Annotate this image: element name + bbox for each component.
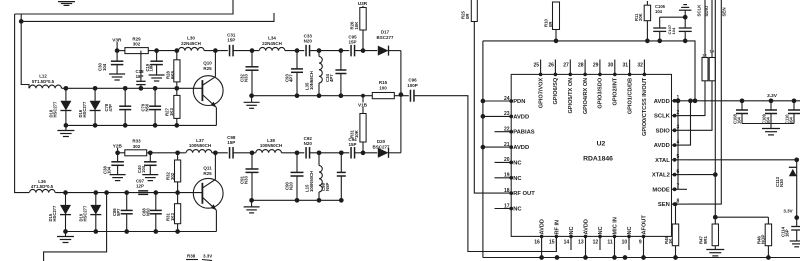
pin 15 stub [555, 235, 559, 250]
node junction C109 rail [769, 98, 774, 103]
node junction D15 bottom [63, 229, 68, 234]
pin 8 label [658, 202, 670, 208]
ground on lower rail [244, 200, 260, 213]
wire C108-C110 bottom link [742, 123, 794, 125]
svg-text:104: 104 [655, 9, 663, 14]
svg-text:104: 104 [736, 116, 741, 124]
node junction C79 top [153, 86, 158, 91]
pin 11 stub [613, 235, 617, 250]
capacitor C92 [306, 147, 310, 159]
svg-text:HSC277: HSC277 [53, 101, 58, 117]
svg-text:10K: 10K [354, 129, 359, 138]
node junction D16 [93, 86, 98, 91]
svg-text:HSC277: HSC277 [82, 101, 87, 117]
svg-text:11: 11 [607, 240, 613, 246]
wire Q11 collector [203, 153, 216, 188]
pin 32 label [642, 77, 648, 136]
svg-text:27: 27 [563, 63, 569, 69]
pin 7 number [677, 184, 680, 190]
svg-text:5T1.5D*0.5: 5T1.5D*0.5 [32, 79, 55, 84]
pin 5 number [677, 154, 680, 160]
diode D20 [378, 148, 401, 158]
capacitor C30 [111, 51, 124, 74]
svg-text:N33: N33 [244, 74, 249, 82]
ground above C106/C107 [679, 5, 692, 20]
node junction gnd rail left [249, 93, 254, 98]
capacitor C94 label [348, 137, 357, 147]
node junction C78 top [123, 86, 128, 91]
capacitor C40 label [137, 165, 146, 173]
wire SDIO riser [687, 81, 712, 131]
svg-text:PABIAS: PABIAS [513, 130, 535, 136]
svg-text:24: 24 [504, 96, 510, 102]
capacitor C90 label [285, 182, 294, 190]
node junction D19 bottom [93, 229, 98, 234]
node junction tap [104, 190, 109, 195]
capacitor C98 [230, 147, 234, 159]
pin 11 label [613, 217, 619, 234]
pin 30 label [613, 77, 619, 105]
wire AVDD top rail [483, 41, 695, 101]
pin 3 label [656, 128, 671, 134]
wire pin11 link [612, 250, 617, 260]
node junction L35 bottom [317, 93, 322, 98]
svg-text:4P7: 4P7 [289, 74, 294, 82]
wire bottom AVDD bus [483, 257, 800, 259]
svg-text:SEN: SEN [722, 7, 727, 16]
resistor R13 pullup [709, 0, 715, 81]
svg-text:XTAL2: XTAL2 [652, 173, 670, 179]
wire C92 to C94 [310, 152, 350, 154]
text 3.3V bottom label [783, 209, 792, 214]
inductor L34 label [262, 36, 282, 46]
capacitor C107 [679, 17, 692, 41]
svg-text:3.3V: 3.3V [767, 93, 778, 99]
svg-text:D17: D17 [381, 30, 390, 35]
pin 17 number [504, 203, 510, 209]
svg-text:12: 12 [593, 240, 599, 246]
pin 24 number [504, 96, 510, 102]
resistor R27 label [165, 108, 174, 116]
node junction C40 top [148, 150, 153, 155]
svg-text:SEN: SEN [658, 202, 670, 208]
svg-text:SDIO: SDIO [656, 128, 671, 134]
capacitor C114 [791, 218, 800, 241]
node junction C110 rail [792, 98, 797, 103]
node junction R27 bottom [174, 123, 179, 128]
capacitor C34 label [325, 74, 334, 82]
pin 9 label [642, 215, 648, 235]
pin 14 number [564, 240, 570, 246]
pin 8 SEN stub [672, 202, 688, 206]
pin 15 number [549, 240, 555, 246]
pin 20 NC stub [495, 161, 512, 163]
pin 17 label [513, 207, 522, 213]
svg-text:L12: L12 [39, 74, 47, 79]
text R38 3.3V (cut off) [186, 254, 212, 261]
transistor Q11 [193, 178, 223, 208]
pin 10 number [622, 240, 628, 246]
pin 23 label [513, 114, 529, 120]
capacitor C92 label [304, 136, 313, 146]
pin 29 number [593, 63, 599, 69]
capacitor C40 [144, 153, 157, 175]
svg-text:3.3V: 3.3V [203, 254, 212, 259]
capacitor C110 label [785, 114, 794, 124]
capacitor C33 [306, 45, 310, 57]
wire left vertical to L12 row [21, 21, 29, 88]
pin 13 label [584, 219, 590, 234]
wire pin16 link [539, 250, 544, 260]
svg-text:HSC277: HSC277 [52, 205, 57, 221]
pin 21 edge dot [509, 145, 513, 149]
node junction C107 rail [683, 39, 688, 44]
pin 22 label [513, 130, 535, 136]
svg-text:22: 22 [504, 127, 510, 133]
pin 12 stub [598, 235, 602, 250]
svg-text:104: 104 [107, 166, 112, 174]
wire ground rail lower [252, 199, 342, 201]
svg-text:RDA1846: RDA1846 [583, 156, 613, 163]
node junction C90 bottom [295, 198, 300, 203]
capacitor C109 label [762, 113, 771, 124]
wire L30 to C31 [204, 50, 228, 52]
svg-text:L34: L34 [268, 36, 276, 41]
inductor L30 [179, 47, 205, 50]
pin 16 stub [540, 235, 544, 250]
resistor R48 label [664, 236, 673, 244]
svg-text:16P: 16P [785, 229, 790, 237]
pin 18 RF OUT stub [495, 192, 512, 194]
capacitor C107 label [667, 24, 676, 34]
node junction lower gnd rail [249, 198, 254, 203]
inductor L36 [30, 189, 56, 192]
svg-text:NC: NC [598, 226, 604, 234]
svg-text:104: 104 [141, 165, 146, 173]
pin 18 edge dot [509, 191, 513, 195]
pin 25 stub [539, 60, 543, 77]
diode D19 label [79, 205, 88, 221]
svg-text:100P: 100P [407, 83, 418, 88]
svg-text:BSC277: BSC277 [376, 35, 394, 40]
wire pin9 link [641, 250, 646, 260]
node junction C90 top [295, 150, 300, 155]
svg-text:HSC277: HSC277 [83, 205, 88, 221]
svg-text:C96: C96 [408, 78, 417, 83]
inductor L30 label [181, 36, 201, 46]
pin 28 stub [583, 60, 587, 77]
svg-text:XTAL: XTAL [655, 158, 670, 164]
pin 31 label [627, 78, 633, 114]
wire C106-C107 top link [660, 16, 686, 18]
capacitor C38 label [103, 166, 112, 174]
diode D16 label [78, 101, 87, 117]
wire XTAL2 net down to R47 [714, 175, 716, 218]
pin 20 edge dot [509, 161, 513, 165]
pin 6 label [652, 173, 670, 179]
node junction C79 bottom [153, 123, 158, 128]
resistor R28 [174, 51, 180, 89]
svg-text:14: 14 [564, 240, 570, 246]
svg-text:18: 18 [504, 188, 510, 194]
inductor L15 [319, 153, 322, 201]
pin 27 label [568, 78, 574, 114]
svg-text:302: 302 [133, 42, 141, 47]
pin 7 label [652, 187, 670, 193]
capacitor C114 label [781, 226, 790, 237]
wire C98 to L38 [233, 152, 255, 154]
ground on upper rail [244, 96, 260, 109]
resistor R47 [712, 217, 718, 249]
capacitor C33 label [304, 34, 313, 44]
pin 11 number [607, 240, 613, 246]
capacitor C97 [138, 191, 148, 195]
pin 19 number [504, 173, 510, 179]
svg-text:0R: 0R [465, 13, 470, 19]
ground below C114 [790, 241, 800, 247]
wire C31 to L34 [233, 50, 259, 52]
pin 8 number [677, 199, 680, 205]
wire Q10 emitter [203, 95, 217, 125]
capacitor C32 [246, 51, 259, 96]
wire pin1 AVDD to rail [687, 98, 697, 103]
node junction R31/D20 [361, 150, 366, 155]
node junction C34 top [339, 48, 344, 53]
capacitor C99 [337, 153, 346, 201]
resistor R15 [372, 93, 394, 99]
node junction top-left [19, 19, 24, 24]
pin 18 label [513, 191, 535, 197]
svg-text:10: 10 [622, 240, 628, 246]
capacitor C106 label [655, 4, 666, 14]
transistor Q11 label [203, 166, 212, 176]
inductor L15 label [305, 171, 314, 192]
wire XTAL to crystal [687, 159, 797, 161]
pin 24 label [513, 99, 525, 105]
capacitor C79 label [140, 103, 149, 111]
resistor R10 label [544, 19, 553, 27]
pin 21 label [513, 145, 529, 151]
resistor R25 label [461, 11, 470, 19]
svg-text:13: 13 [578, 240, 584, 246]
U2 part number label [583, 156, 613, 163]
node junction pin21 bus [481, 145, 486, 150]
resistor R31b label [166, 213, 175, 221]
resistor R31 label [350, 129, 359, 138]
svg-text:N50: N50 [144, 103, 149, 111]
node junction D16 bottom [93, 123, 98, 128]
pin 24 PDN stub [483, 100, 511, 102]
svg-text:19: 19 [504, 173, 510, 179]
capacitor C34 [335, 51, 346, 96]
node junction C99 bottom [339, 198, 344, 203]
svg-text:18P: 18P [136, 74, 144, 79]
resistor R12 pullup label [702, 54, 707, 58]
resistor R27 [174, 88, 180, 125]
svg-text:28: 28 [578, 63, 584, 69]
wire R15 to C96 [394, 95, 409, 97]
transistor Q10 label [203, 61, 212, 71]
svg-text:26: 26 [548, 63, 554, 69]
wire L38 to C92 [281, 152, 304, 154]
pin 26 label [553, 77, 559, 104]
node junction pin24 bus [481, 99, 486, 104]
pin 26 stub [554, 60, 558, 77]
svg-text:15: 15 [549, 240, 555, 246]
inductor L38 label [260, 138, 282, 148]
wire pin4 AVDD riser [687, 98, 693, 145]
pin 2 label [654, 114, 671, 120]
capacitor C99 label [321, 183, 330, 191]
svg-text:9: 9 [639, 240, 642, 246]
svg-text:N20: N20 [304, 141, 313, 146]
node junction D15 [63, 190, 68, 195]
svg-text:N20: N20 [289, 182, 294, 190]
inductor L37 label [189, 138, 211, 148]
svg-text:22N45CH: 22N45CH [181, 41, 201, 46]
pin 23 edge dot [509, 115, 513, 119]
node junction XTAL2/riser [713, 172, 718, 177]
inductor L12 [30, 85, 62, 88]
node junction C88 top [153, 190, 158, 195]
svg-text:100: 100 [379, 85, 387, 90]
pin 22 PABIAS stub [495, 131, 512, 133]
pin 1 AVDD stub [672, 99, 688, 103]
resistor R25 [471, 0, 477, 22]
capacitor C109 [765, 101, 777, 124]
pin 4 label [654, 143, 670, 149]
pin 6 number [677, 169, 680, 175]
capacitor C19 label [145, 63, 154, 71]
svg-text:N50: N50 [145, 208, 150, 216]
pin 9 stub [642, 235, 646, 250]
ground below C30 [109, 74, 125, 80]
pin 5 label [655, 158, 670, 164]
svg-text:AVDD: AVDD [540, 219, 546, 234]
node junction R27 top [174, 86, 179, 91]
pin 18 number [504, 188, 510, 194]
pin 3 number [677, 125, 680, 131]
node junction bus extra3 [555, 255, 560, 260]
svg-text:104: 104 [765, 116, 770, 124]
ground below lower bottom row [57, 232, 74, 243]
pin 7 MODE stub [672, 187, 688, 191]
node junction R26/D17 [361, 48, 366, 53]
wire Y2B stub [117, 148, 119, 153]
svg-text:25: 25 [534, 63, 540, 69]
pin 12 label [598, 226, 604, 234]
wire L37 to C98 [212, 152, 228, 154]
svg-text:SCLK: SCLK [654, 114, 671, 120]
svg-text:104: 104 [788, 116, 793, 124]
resistor R33 [118, 150, 157, 156]
wire L12 to Q10 base [62, 87, 203, 89]
resistor R32 label [166, 172, 175, 180]
capacitor C31 label [227, 33, 236, 43]
pin 13 stub [584, 235, 588, 250]
svg-text:Q11: Q11 [203, 166, 212, 171]
wire left vertical to L36 row [15, 14, 29, 193]
pin 1 number [677, 95, 680, 101]
capacitor C88 label [141, 208, 150, 216]
pin 4 AVDD stub [672, 143, 688, 147]
inductor L35 label [305, 71, 314, 90]
svg-text:GPIO2/INT: GPIO2/INT [613, 77, 619, 105]
node junction C18 bottom [139, 86, 144, 91]
node junction C86 bottom [124, 229, 129, 234]
svg-text:20K: 20K [638, 13, 643, 21]
svg-text:Q10: Q10 [203, 61, 212, 66]
node junction C34 bottom [339, 93, 344, 98]
resistor R46 [765, 217, 771, 257]
svg-text:MIC IN: MIC IN [613, 217, 619, 234]
pin 10 stub [627, 235, 631, 250]
pin 21 number [504, 142, 510, 148]
pin 24 edge dot [509, 99, 513, 103]
pin 21 AVDD stub [483, 146, 511, 148]
pin 2 SCLK stub [672, 114, 688, 118]
pin 31 number [623, 63, 629, 69]
resistor R26 label [350, 21, 359, 30]
svg-text:AVDD: AVDD [513, 114, 529, 120]
wire SCLK riser [687, 81, 705, 116]
node junction RF common [399, 92, 404, 97]
pin 9 number [639, 240, 642, 246]
svg-text:10N68CH: 10N68CH [309, 71, 314, 90]
node junction pin23 bus [481, 114, 486, 119]
node junction L30/Q10 collector [213, 48, 218, 53]
capacitor C91 label [240, 176, 249, 184]
node U3R label [358, 1, 368, 6]
svg-text:U2: U2 [597, 141, 606, 148]
wire top bus A (y=14) [15, 0, 233, 14]
pin 23 number [504, 111, 510, 117]
pin 26 number [548, 63, 554, 69]
resistor R31 [360, 94, 366, 153]
inductor L37 [186, 150, 212, 153]
svg-text:4T1.5D*0.5: 4T1.5D*0.5 [31, 184, 54, 189]
node junction D18 bottom [64, 123, 69, 128]
node junction C99 top [339, 150, 344, 155]
capacitor C30 label [98, 63, 107, 71]
wire AVDD left bus [482, 41, 484, 258]
svg-text:NC: NC [513, 207, 522, 213]
text 3.3V rail label [767, 93, 778, 99]
capacitor C78 [119, 88, 131, 125]
transistor Q10 [193, 76, 223, 106]
node junction C19 top [154, 48, 159, 53]
svg-text:104: 104 [102, 63, 107, 71]
svg-text:N30: N30 [779, 179, 784, 187]
svg-text:32: 32 [637, 63, 643, 69]
svg-text:GPIO4/RX ON: GPIO4/RX ON [583, 78, 589, 114]
capacitor C18 [136, 51, 145, 89]
pin 10 label [627, 226, 633, 234]
pin 25 label [538, 78, 544, 109]
svg-text:SCLK: SCLK [697, 4, 702, 17]
pin 31 stub [628, 60, 632, 77]
ground below C109 [762, 124, 780, 135]
inductor L35 [319, 51, 322, 96]
capacitor C108 label [733, 113, 742, 124]
capacitor C113 (trimmer) [789, 160, 797, 218]
svg-text:NC: NC [513, 160, 522, 166]
resistor R46 label [757, 235, 766, 244]
node junction L37/Q11 collector [213, 150, 218, 155]
pin 15 label [554, 220, 560, 235]
wire Q10 collector [203, 51, 216, 85]
pin 12 number [593, 240, 599, 246]
